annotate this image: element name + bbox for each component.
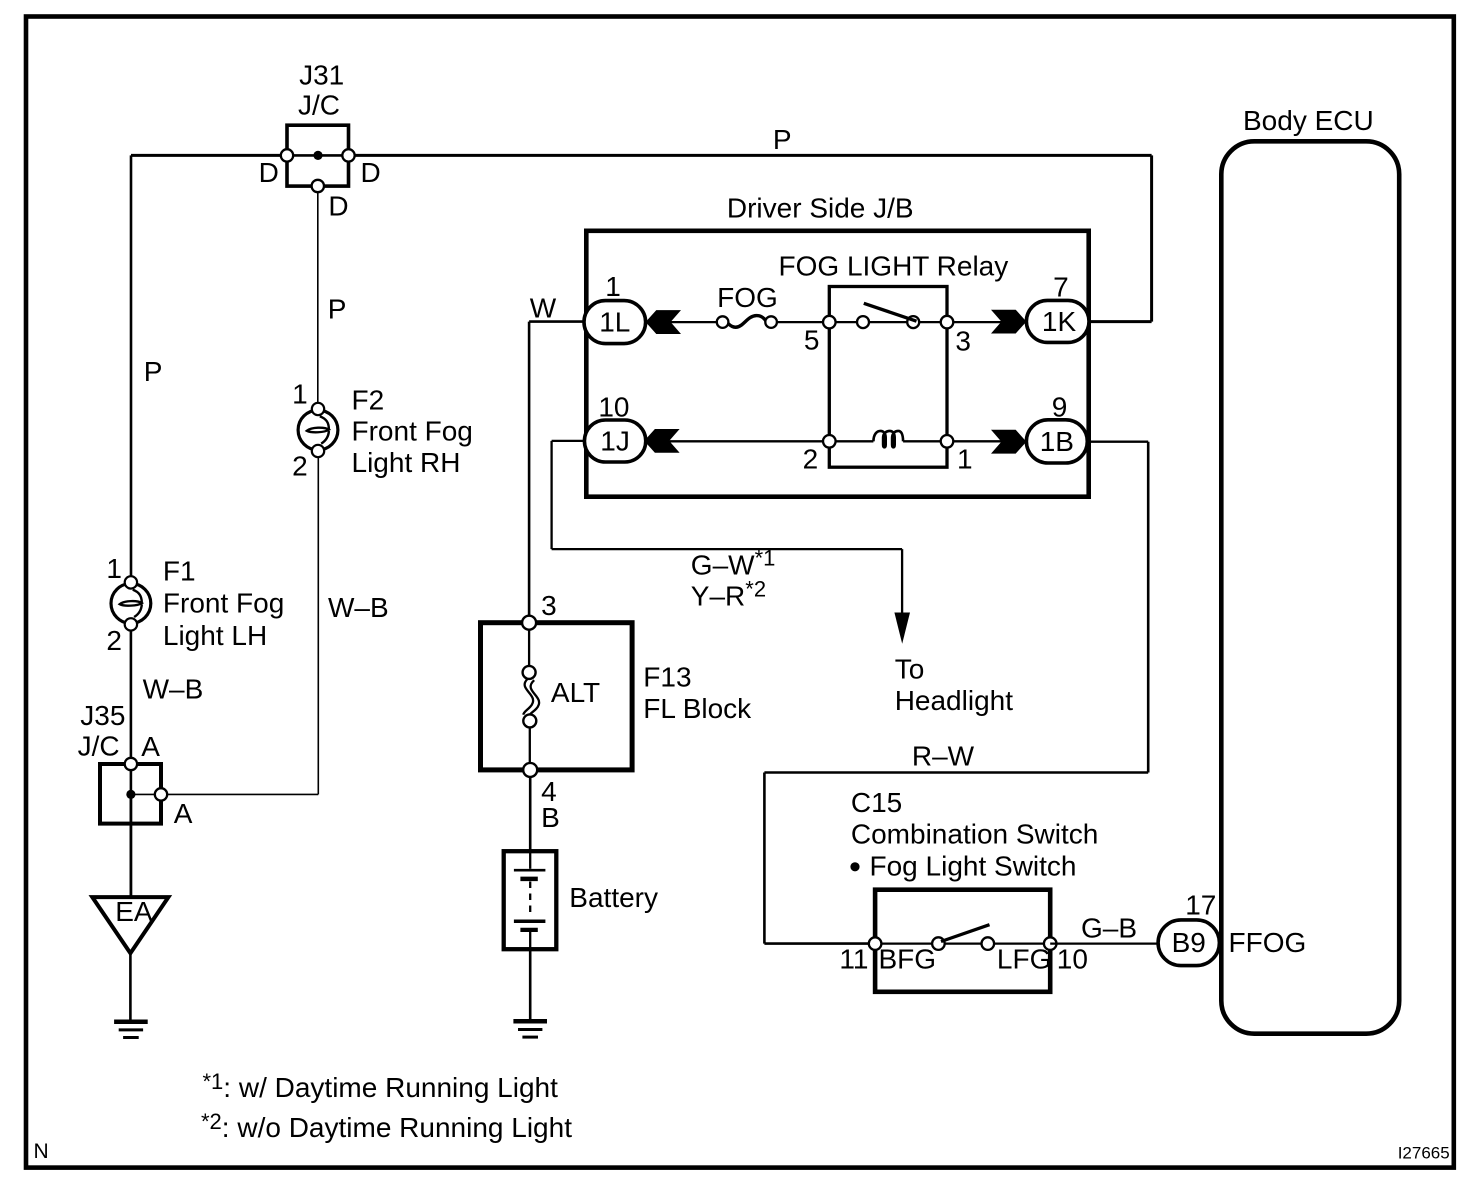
svg-text:1L: 1L bbox=[599, 307, 630, 338]
svg-text:F13: F13 bbox=[643, 662, 691, 693]
svg-text:1B: 1B bbox=[1040, 426, 1074, 457]
wire from 1J left side bbox=[552, 440, 584, 442]
svg-text:Combination Switch: Combination Switch bbox=[851, 818, 1098, 849]
connector 1L (pin 1) bbox=[584, 301, 646, 344]
svg-text:2: 2 bbox=[106, 625, 122, 656]
switch contact LFG bbox=[982, 937, 995, 950]
relay pin 2 bbox=[823, 435, 836, 448]
wire P feed: J31 left to left bus bbox=[131, 154, 287, 157]
wire inside switch pin 11 to pin 10 bbox=[875, 942, 1050, 944]
ground point EA triangle bbox=[92, 897, 168, 953]
connector 1B (pin 9) bbox=[1026, 420, 1087, 463]
svg-text:ALT: ALT bbox=[551, 677, 600, 708]
wire coil to relay pin 1 bbox=[903, 440, 947, 442]
relay pin 5 bbox=[823, 316, 836, 329]
svg-text:B: B bbox=[541, 802, 560, 833]
svg-text:J35: J35 bbox=[80, 700, 125, 731]
flow arrow into 1J bbox=[644, 429, 679, 453]
wire through J35 vertical bbox=[130, 764, 133, 897]
svg-text:2: 2 bbox=[803, 444, 819, 475]
wire through J31 bbox=[287, 154, 349, 157]
svg-text:FFOG: FFOG bbox=[1229, 927, 1307, 958]
svg-text:LFG: LFG bbox=[997, 944, 1051, 975]
svg-text:11: 11 bbox=[839, 944, 868, 975]
svg-text:D: D bbox=[328, 190, 348, 221]
svg-text:Light LH: Light LH bbox=[163, 620, 267, 651]
wire R-W vertical down to switch bbox=[763, 773, 766, 944]
wire W horizontal into 1L bbox=[529, 320, 586, 323]
svg-text:EA: EA bbox=[115, 896, 153, 927]
wire coil row from 1J arrow to relay pin 2 bbox=[668, 440, 829, 442]
relay FOG LIGHT Relay box bbox=[829, 287, 947, 468]
wire into 1K right side bbox=[1089, 320, 1152, 323]
svg-text:D: D bbox=[361, 157, 381, 188]
svg-text:N: N bbox=[34, 1140, 49, 1163]
wire EA to ground symbol bbox=[129, 953, 132, 1022]
svg-text:BFG: BFG bbox=[879, 944, 937, 975]
svg-text:Front Fog: Front Fog bbox=[163, 588, 284, 619]
connector B9 (pin 17) bbox=[1158, 920, 1219, 966]
svg-text:W–B: W–B bbox=[328, 592, 389, 623]
svg-text:1: 1 bbox=[957, 444, 973, 475]
junction block Driver Side J/B bbox=[586, 231, 1088, 497]
bullet Fog Light Switch label bbox=[850, 862, 859, 871]
wire relay pin 2 to coil bbox=[829, 440, 873, 442]
svg-text:7: 7 bbox=[1053, 272, 1069, 303]
svg-text:B9: B9 bbox=[1172, 927, 1206, 958]
fusible link ALT symbol bbox=[523, 666, 540, 728]
fog light bulb F2 bbox=[298, 403, 338, 457]
svg-text:P: P bbox=[773, 124, 792, 155]
svg-text:Light RH: Light RH bbox=[352, 447, 461, 478]
svg-text:G–B: G–B bbox=[1081, 913, 1137, 944]
svg-text:3: 3 bbox=[955, 326, 971, 357]
wire P feed: left bus vertical down to F1 bbox=[130, 155, 133, 583]
svg-text:P: P bbox=[144, 356, 163, 387]
svg-text:1K: 1K bbox=[1042, 306, 1077, 337]
svg-text:Headlight: Headlight bbox=[895, 685, 1014, 716]
svg-text:FL Block: FL Block bbox=[643, 693, 752, 724]
svg-text:W–B: W–B bbox=[143, 674, 204, 705]
svg-text:Driver Side J/B: Driver Side J/B bbox=[727, 192, 914, 223]
wire W-B from F2 pin 2 down bbox=[317, 457, 319, 794]
svg-text:J/C: J/C bbox=[78, 731, 120, 762]
svg-text:17: 17 bbox=[1185, 890, 1216, 921]
wire F13 pin 4 to battery bbox=[529, 777, 532, 851]
wire J31 bottom down to F2 pin 1 bbox=[317, 193, 319, 410]
wire through F13 pin3 to fuse bbox=[528, 623, 530, 666]
connector 1K (pin 7) bbox=[1026, 300, 1089, 342]
switch blade bbox=[941, 925, 990, 942]
svg-text:A: A bbox=[174, 798, 193, 829]
svg-text:10: 10 bbox=[598, 392, 629, 423]
svg-text:D: D bbox=[259, 157, 279, 188]
wire down to headlight arrow bbox=[901, 549, 903, 616]
switch pin 10 terminal bbox=[1044, 937, 1057, 950]
svg-text:I27665: I27665 bbox=[1398, 1144, 1450, 1163]
wire 1J loop vertical bbox=[550, 441, 552, 549]
wire G-B from pin 10 to B9 bbox=[1050, 942, 1158, 944]
terminal D bottom of J31 bbox=[312, 180, 324, 192]
wire battery to ground bbox=[529, 949, 532, 1021]
relay coil symbol bbox=[873, 431, 903, 447]
svg-text:P: P bbox=[328, 294, 347, 325]
svg-text:Fog Light Switch: Fog Light Switch bbox=[870, 851, 1077, 882]
wire 1B vertical down bbox=[1147, 442, 1150, 773]
wire P feed: J31 right toward Body ECU side bbox=[349, 154, 1152, 157]
wire W vertical down to F13 pin 3 bbox=[528, 322, 531, 623]
terminal D left of J31 bbox=[281, 149, 293, 161]
fog light bulb F1 bbox=[111, 576, 151, 630]
wire through J35 to right terminal bbox=[131, 793, 161, 795]
svg-text:1: 1 bbox=[292, 379, 308, 410]
svg-text:2: 2 bbox=[292, 451, 308, 482]
svg-text:J31: J31 bbox=[299, 60, 344, 91]
svg-text:J/C: J/C bbox=[298, 90, 340, 121]
relay pin 1 bbox=[941, 435, 954, 448]
wire W-B from F1 pin 2 down to J35 bbox=[130, 630, 133, 764]
battery bbox=[504, 851, 557, 949]
wire fuse row from 1L arrow to fuse bbox=[668, 321, 723, 323]
svg-text:F2: F2 bbox=[352, 385, 385, 416]
terminal D right of J31 bbox=[342, 149, 354, 161]
relay switch contact left bbox=[857, 316, 869, 328]
svg-text:1: 1 bbox=[605, 271, 621, 302]
arrowhead to headlight bbox=[894, 613, 910, 644]
ground symbol below battery bbox=[513, 1019, 547, 1024]
svg-text:*1: w/ Daytime Running Light: *1: w/ Daytime Running Light bbox=[203, 1069, 559, 1103]
svg-text:3: 3 bbox=[541, 590, 557, 621]
svg-text:C15: C15 bbox=[851, 787, 902, 818]
F13 pin 4 terminal bbox=[523, 763, 537, 777]
wire relay top row pin 5 to pin 3 and out to 1K bbox=[829, 321, 1026, 323]
svg-text:1: 1 bbox=[106, 553, 122, 584]
flow arrow into 1L bbox=[646, 310, 681, 334]
connector 1J (pin 10) bbox=[584, 420, 645, 462]
fuse block F13 bbox=[481, 623, 633, 770]
flow arrow into 1B bbox=[991, 430, 1026, 454]
junction dot inside J35 bbox=[126, 790, 135, 799]
relay switch contact right bbox=[907, 316, 919, 328]
wire W-B horizontal into J35 terminal A right bbox=[161, 793, 318, 795]
wire fuse to F13 pin4 bbox=[529, 727, 531, 770]
junction connector J31 bbox=[287, 125, 349, 186]
relay pin 3 bbox=[941, 316, 954, 329]
svg-text:5: 5 bbox=[804, 325, 820, 356]
switch C15 box bbox=[875, 890, 1050, 992]
switch contact BFG bbox=[932, 937, 945, 950]
wire J35 down to EA ground triangle bbox=[130, 794, 133, 897]
svg-text:R–W: R–W bbox=[912, 741, 975, 772]
svg-text:W: W bbox=[530, 292, 557, 323]
svg-text:A: A bbox=[141, 731, 160, 762]
junction connector J35 bbox=[100, 764, 161, 824]
svg-text:*2: w/o Daytime Running Light: *2: w/o Daytime Running Light bbox=[201, 1109, 572, 1143]
relay switch blade bbox=[864, 303, 917, 321]
svg-text:Body ECU: Body ECU bbox=[1243, 105, 1374, 136]
wire 1J loop horizontal G-W bbox=[552, 548, 903, 550]
F13 pin 3 terminal bbox=[522, 616, 536, 630]
wire into switch pin 11 bbox=[764, 942, 875, 945]
svg-text:To: To bbox=[895, 654, 925, 685]
ground symbol below EA bbox=[114, 1019, 148, 1024]
svg-text:FOG: FOG bbox=[717, 282, 778, 313]
terminal A top of J35 bbox=[125, 758, 137, 770]
switch pin 11 terminal bbox=[869, 937, 882, 950]
ECU Body ECU box bbox=[1221, 141, 1399, 1033]
wire P feed: right vertical down to 1K bbox=[1150, 155, 1153, 321]
junction dot inside J31 bbox=[313, 151, 322, 160]
svg-text:1J: 1J bbox=[600, 426, 630, 457]
svg-text:10: 10 bbox=[1057, 944, 1088, 975]
svg-text:Front Fog: Front Fog bbox=[352, 416, 473, 447]
svg-text:F1: F1 bbox=[163, 555, 196, 586]
flow arrow into 1K bbox=[991, 310, 1026, 334]
svg-text:9: 9 bbox=[1052, 391, 1068, 422]
wire R-W horizontal bbox=[764, 771, 1148, 774]
terminal A right of J35 bbox=[155, 788, 167, 800]
wire from 1B right side bbox=[1087, 441, 1148, 443]
svg-text:Battery: Battery bbox=[569, 882, 658, 913]
fuse FOG symbol bbox=[717, 316, 777, 328]
svg-text:FOG LIGHT Relay: FOG LIGHT Relay bbox=[779, 251, 1009, 282]
wire fuse to relay pin 5 bbox=[771, 321, 829, 323]
wire coil row relay pin 1 out to 1B bbox=[947, 440, 1026, 442]
